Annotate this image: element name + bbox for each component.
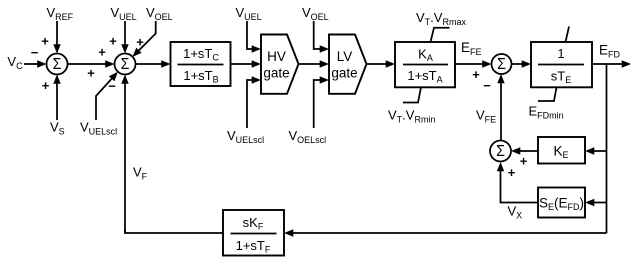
wire VFE from S4 to S3 (497, 74, 504, 141)
block KA/(1+sTA) (395, 42, 455, 87)
svg-text:−: − (108, 79, 116, 94)
svg-text:gate: gate (263, 66, 289, 81)
block KE (538, 137, 585, 164)
wire EFD feedback branch vertical (606, 64, 608, 233)
wire EFD output (592, 60, 631, 67)
wire sKF block to VF riser (125, 230, 223, 233)
wire HV gate to LV gate (299, 60, 330, 67)
summing junction S2 (115, 54, 136, 75)
block SE(EFD) (538, 188, 585, 218)
svg-text:Σ: Σ (53, 56, 62, 73)
svg-text:−: − (483, 78, 491, 93)
wire feed to SE (585, 199, 607, 206)
svg-text:Σ: Σ (497, 56, 506, 73)
wire VOEL into S2 (132, 21, 155, 57)
gate LV (329, 35, 367, 94)
svg-text:+: + (508, 165, 516, 180)
wire feedback bottom to sKF block (284, 229, 607, 236)
wire VUELscl to HV gate bottom input (247, 76, 261, 128)
wire S2 to lead-lag block (136, 60, 171, 67)
summing junction S4 (490, 141, 511, 162)
svg-text:+: + (42, 78, 50, 93)
limit mark VT.VRmin (403, 87, 421, 102)
wire lead-lag to HV gate (231, 60, 262, 67)
svg-text:Σ: Σ (121, 56, 130, 73)
wire S3 to integrator (512, 60, 532, 67)
wire VC input (24, 60, 47, 67)
wire LV gate to KA block (367, 60, 396, 67)
wire VUELscl into S2 (96, 72, 118, 120)
svg-text:+: + (136, 35, 144, 50)
svg-text:gate: gate (331, 66, 357, 81)
svg-text:HV: HV (267, 49, 286, 64)
wire SE to S4 (VX) (497, 162, 538, 203)
wire VUEL to HV gate top input (247, 21, 261, 53)
svg-text:+: + (520, 154, 528, 169)
block lead-lag (1+sTC)/(1+sTB) (171, 42, 231, 86)
wire VF into S2 (121, 75, 128, 234)
wire KA to S3 (455, 60, 492, 67)
gate HV (261, 35, 299, 94)
svg-text:+: + (472, 67, 480, 82)
wire VS input (53, 75, 60, 121)
svg-text:+: + (87, 66, 95, 81)
summing junction S3 (492, 54, 512, 74)
summing junction S1 (47, 54, 68, 75)
limit mark EFDmin (538, 87, 557, 101)
limit mark VT.VRmax (431, 28, 450, 42)
wire feed to KE (585, 147, 607, 154)
svg-text:+: + (98, 45, 106, 60)
wire VOEL to LV gate top input (314, 21, 329, 53)
wire KE to S4 (511, 147, 538, 154)
block sKF/(1+sTF) (223, 210, 284, 256)
wire S1 to S2 (68, 60, 115, 67)
svg-text:−: − (31, 45, 39, 60)
svg-text:+: + (41, 34, 49, 49)
svg-text:Σ: Σ (496, 143, 505, 160)
wire VOELscl to LV gate bottom input (314, 76, 329, 128)
block 1/sTE (531, 42, 592, 87)
wire VREF input (53, 21, 60, 54)
svg-text:LV: LV (337, 49, 353, 64)
wire VUEL into S2 (121, 21, 128, 54)
svg-text:1: 1 (557, 46, 564, 61)
limit mark integrator top (566, 27, 570, 43)
svg-text:+: + (109, 34, 117, 49)
